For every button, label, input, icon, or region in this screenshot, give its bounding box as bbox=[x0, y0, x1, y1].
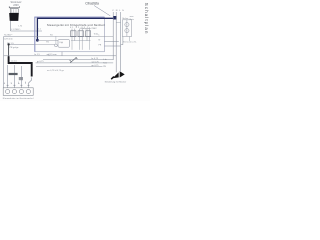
wire y=66.5 bbox=[36, 66, 103, 68]
connector plug symbol right half bbox=[120, 71, 125, 77]
junction dot navy bottom bbox=[36, 39, 39, 42]
svg-text:N 230V~: N 230V~ bbox=[4, 35, 13, 37]
terminal drop wire 4 bbox=[29, 78, 32, 88]
wire end clamp ticks bbox=[7, 84, 30, 86]
svg-text:br 1,5: br 1,5 bbox=[35, 53, 41, 56]
cable marker small bbox=[19, 77, 23, 80]
terminal 3 bbox=[19, 90, 23, 94]
wire from navy junction to module bbox=[37, 39, 58, 41]
switch S1 on wire y=60 bbox=[70, 57, 78, 63]
plug X0 body (solid part) bbox=[9, 13, 19, 21]
svg-text:br 0,75: br 0,75 bbox=[92, 57, 99, 60]
lamp H1 (circle) bbox=[55, 44, 58, 47]
svg-text:sw 0,75: sw 0,75 bbox=[92, 61, 100, 63]
fuse unit box (top right) bbox=[122, 20, 131, 37]
svg-text:sw 1,5 mm: sw 1,5 mm bbox=[47, 54, 57, 56]
wire y=59.4 bbox=[43, 58, 113, 60]
svg-text:L1 230V~: L1 230V~ bbox=[11, 29, 21, 31]
fuse element F2 (circle) bbox=[125, 29, 129, 33]
wire bus y=55.8 (long run to right column) bbox=[4, 55, 117, 57]
control unit box (main) bbox=[35, 17, 105, 52]
terminal strip X1 bbox=[3, 88, 33, 96]
svg-text:Steuergerät mit Klingeltrafo u: Steuergerät mit Klingeltrafo und Netztei… bbox=[47, 23, 105, 27]
junction dot on PE wire bbox=[8, 43, 10, 45]
wire right column v2 bbox=[115, 12, 117, 72]
wire PE to control box (y=44.5) bbox=[9, 44, 35, 46]
fuse internal link bbox=[126, 20, 128, 36]
wire plug leg L bbox=[10, 21, 12, 31]
svg-text:gr 0,75: gr 0,75 bbox=[37, 60, 44, 63]
svg-text:Klgl: Klgl bbox=[60, 42, 64, 44]
cable marker bar bbox=[9, 73, 18, 75]
svg-text:gn 0,75: gn 0,75 bbox=[92, 65, 100, 67]
wire L1 to control box (y=31) bbox=[11, 30, 42, 32]
relay K1 bbox=[71, 31, 77, 37]
terminal 4 bbox=[26, 90, 30, 94]
terminal drop wire 1 bbox=[7, 65, 9, 88]
terminal drop wire 3 bbox=[20, 66, 22, 88]
connector plug symbol (black, bottom right) left half bbox=[113, 72, 119, 78]
lamp feed drop bbox=[55, 36, 57, 44]
module A1 (rounded box) bbox=[58, 40, 70, 48]
wire PE medium drop bbox=[8, 45, 10, 57]
svg-text:PE gn/ge: PE gn/ge bbox=[10, 47, 20, 49]
wire PE inside box bbox=[35, 44, 55, 46]
plug X0 (mains plug symbol, top-left) bbox=[9, 6, 20, 13]
jog tick between v2 v3 bbox=[116, 22, 120, 24]
svg-text:gn: gn bbox=[18, 82, 20, 84]
wire right column v3 bbox=[120, 12, 122, 71]
wire left vertical feeder (x=3.6) bbox=[3, 37, 5, 88]
junction square navy right end bbox=[113, 16, 117, 20]
control unit box top and left edges (stronger) bbox=[35, 17, 105, 52]
svg-text:ws 0,75 bl 0,75 gn: ws 0,75 bl 0,75 gn bbox=[47, 70, 65, 72]
fuse right lead stub bbox=[129, 37, 131, 42]
wire N to control box (y=36.5) bbox=[4, 36, 35, 38]
connector tail stroke bbox=[111, 77, 114, 80]
svg-text:Cihazlista: Cihazlista bbox=[85, 2, 99, 6]
svg-text:Klemmleiste im Gerätesockel: Klemmleiste im Gerätesockel bbox=[3, 97, 34, 100]
wire exit right y=36.2 bbox=[35, 35, 113, 37]
svg-text:Schaltplan: Schaltplan bbox=[144, 3, 149, 35]
relay bus wire bbox=[71, 40, 91, 42]
svg-text:Netzleitung mit Stecker: Netzleitung mit Stecker bbox=[105, 80, 127, 83]
terminal 2 bbox=[12, 90, 16, 94]
wire exit right y=41.3 bbox=[104, 40, 118, 42]
svg-text:L N: L N bbox=[19, 26, 23, 28]
wire y=62.9 bbox=[36, 62, 114, 64]
wire exit right y=46 bbox=[104, 45, 120, 47]
fuse element F1 (circle) bbox=[125, 23, 129, 27]
svg-text:K1 K2 K3 Tr: K1 K2 K3 Tr bbox=[70, 27, 90, 29]
stub box bottom to bus bbox=[61, 52, 63, 56]
svg-text:Sicher.: Sicher. bbox=[122, 17, 129, 20]
relay K3 bbox=[86, 31, 91, 37]
relay K2 bbox=[78, 31, 84, 37]
relay pins vertical lines bbox=[72, 29, 90, 50]
svg-text:L br: L br bbox=[103, 58, 107, 61]
svg-text:230V: 230V bbox=[13, 4, 19, 7]
svg-text:Netzanschl.: Netzanschl. bbox=[123, 41, 137, 44]
svg-text:0,75 mm: 0,75 mm bbox=[4, 39, 13, 41]
svg-text:N bl: N bl bbox=[103, 63, 107, 65]
svg-text:C N L S: C N L S bbox=[112, 10, 124, 12]
fuse lead to v3 bbox=[121, 37, 123, 45]
wire PE thick run (down, right, down) bbox=[9, 56, 32, 76]
tick on bus y=55.8 bbox=[48, 54, 50, 56]
terminal drop wire 2 bbox=[13, 65, 15, 88]
leader line from label bbox=[94, 6, 110, 16]
wire right column v1 bbox=[112, 12, 114, 60]
wire navy highlighted L run bbox=[37, 18, 115, 40]
svg-text:sw 1,5: sw 1,5 bbox=[11, 61, 18, 63]
terminal 1 bbox=[6, 90, 10, 94]
